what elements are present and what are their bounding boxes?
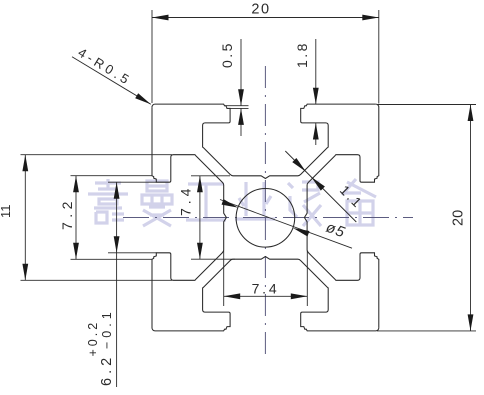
dim 20 right: extension lines: [377, 104, 476, 106]
dim 1.8 arrows: [313, 88, 319, 105]
dim 7.2 arrows: [73, 176, 79, 193]
centerline horizontal: [123, 217, 413, 219]
svg-text:7.4: 7.4: [178, 185, 194, 216]
leader 4-R0.5 arrow: [135, 93, 152, 107]
dim 20 top arrows: [152, 15, 169, 21]
dim 1.1 arrows: [292, 158, 308, 174]
dim 7.4 vertical arrows: [197, 176, 203, 193]
char ye: [235, 182, 275, 219]
dim 0.5: extension lines: [226, 105, 249, 107]
svg-text:20: 20: [251, 2, 270, 18]
dim 11: extension lines: [21, 154, 173, 156]
centerline vertical: [264, 66, 266, 361]
svg-text:11: 11: [0, 205, 13, 219]
profile outline: 4 rotated slots: [152, 104, 379, 331]
char gong: [186, 184, 226, 220]
dim 7.4 vertical: dimension line: [199, 176, 201, 259]
dim o5: leader line: [220, 200, 352, 249]
right slot: [304, 104, 378, 328]
svg-text:20: 20: [451, 210, 467, 226]
dim 7.4 bottom arrows: [224, 293, 241, 299]
char bei: [342, 179, 376, 225]
center hole circle o5: [236, 189, 295, 248]
dim 6.2: extension lines: [108, 181, 157, 183]
leader 4-R0.5: [72, 57, 151, 105]
dim 1.1: dimension line: [285, 151, 356, 222]
dim 11: dimension line: [24, 155, 26, 281]
dim 7.2: dimension line: [75, 176, 77, 260]
svg-text:6.2: 6.2: [99, 354, 115, 386]
svg-text:+0.2: +0.2: [86, 320, 100, 357]
dim 11 arrows: [22, 155, 28, 172]
dim 1.8: dimension lines: [315, 39, 317, 104]
dim 7.4 bottom: dimension line: [224, 295, 308, 297]
top slot: [152, 104, 376, 178]
watermark 嘉曼工业设备: [88, 179, 376, 226]
left slot: [152, 107, 226, 331]
dim 7.4 bottom: extension lines: [223, 251, 225, 307]
char jia: [88, 179, 128, 223]
dim 6.2: dimension line with tail: [116, 182, 118, 387]
arrows: [22, 15, 473, 331]
dim 0.5 arrows: [238, 89, 244, 106]
char man: [142, 181, 172, 226]
dim 20 right: dimension line: [470, 105, 472, 331]
dim 0.5: dimension lines: [240, 39, 242, 106]
svg-text:7.2: 7.2: [59, 197, 75, 230]
svg-text:1.8: 1.8: [294, 41, 310, 68]
dim 7.2: extension lines: [71, 175, 153, 177]
svg-text:0.5: 0.5: [219, 41, 235, 68]
svg-text:7.4: 7.4: [252, 281, 280, 297]
bottom slot: [155, 257, 379, 331]
dim 20 top: dimension line: [152, 17, 379, 19]
svg-text:−0.1: −0.1: [100, 308, 114, 349]
dim 20 right arrows: [468, 105, 474, 122]
dim o5 arrows: [222, 199, 239, 210]
dim 7.4 vertical: extension lines: [191, 175, 230, 177]
char she: [288, 182, 321, 226]
dim 6.2 arrows: [114, 182, 120, 199]
dim 20 top: extension lines: [151, 10, 153, 103]
